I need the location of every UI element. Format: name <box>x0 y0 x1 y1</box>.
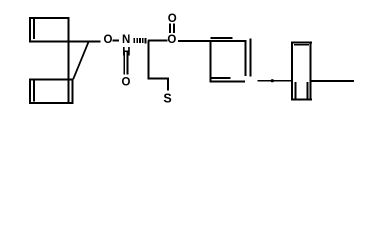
ring C inner bottom double-bond line <box>212 77 231 79</box>
svg-text:O: O <box>167 34 176 46</box>
ring D right edge <box>310 41 312 100</box>
ring C top edge <box>211 37 233 39</box>
hashed wedge tick 1 <box>134 38 136 43</box>
ester C=O double bond line 1 <box>169 24 171 34</box>
ring D inner top double-bond line <box>294 44 309 46</box>
hashed wedge tick 3 <box>139 38 141 43</box>
svg-text:S: S <box>163 92 171 106</box>
svg-text:O: O <box>104 34 113 46</box>
C=O double bond below N, line 1 <box>123 52 125 75</box>
ring A left outer edge <box>29 17 31 42</box>
ring A left inner double-bond line <box>33 19 35 39</box>
hashed wedge tick 5 <box>145 38 147 43</box>
hashed wedge tick 4 <box>142 38 144 43</box>
ring B bottom edge <box>29 102 74 104</box>
ring D inner bottom double-bond line 2 <box>307 82 309 99</box>
ring C bottom edge <box>210 81 245 83</box>
ring D inner bottom double-bond line 1 <box>295 82 297 99</box>
svg-text:O: O <box>168 13 177 25</box>
svg-text:H: H <box>122 47 130 59</box>
svg-text:N: N <box>122 34 130 46</box>
ring D bottom edge <box>291 98 312 100</box>
ring B right edge <box>72 79 74 105</box>
ring B left inner double-bond line <box>33 81 35 102</box>
svg-text:O: O <box>122 77 131 89</box>
ring D top edge <box>291 41 312 43</box>
chain short vertical bond to S <box>167 78 169 91</box>
hashed wedge tick 2 <box>136 38 138 43</box>
ring C right double-bond line 1 <box>245 41 247 76</box>
ring C right double-bond line 2 <box>250 39 252 77</box>
stereocenter vertical bond down <box>148 41 150 80</box>
ring C left edge <box>210 41 212 83</box>
chain horizontal bond toward S <box>148 78 169 80</box>
ring A/B shared right vertical edge <box>68 17 70 104</box>
wire: ring A bottom edge continuing as bond to O1 <box>29 41 101 43</box>
bond O1 to N <box>113 40 120 42</box>
diagonal bond C9 to ring B <box>73 41 89 79</box>
ring B left outer edge <box>29 79 31 105</box>
C=O double bond below N, line 2 <box>127 52 129 75</box>
bond ring D to methyl <box>312 80 355 82</box>
ring A top edge <box>29 17 70 19</box>
bond stereocenter to ester O3 <box>148 40 168 42</box>
bond ring C to ring D <box>258 80 292 82</box>
bond ester O3 to ring C <box>178 40 247 42</box>
wire junction dot <box>271 79 274 82</box>
ring B top edge <box>29 79 74 81</box>
ring D left edge <box>291 42 293 101</box>
ester C=O double bond line 2 <box>173 24 175 34</box>
